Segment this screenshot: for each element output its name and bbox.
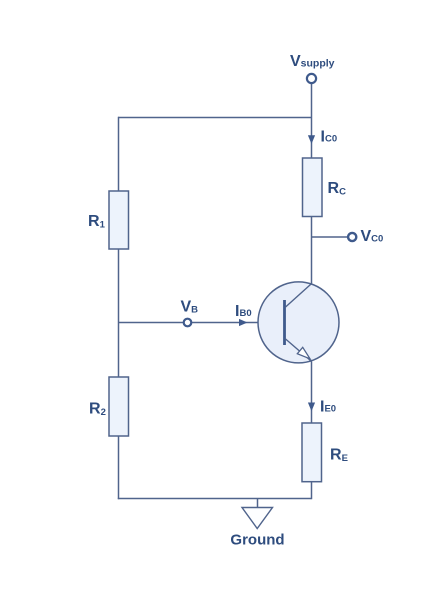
ground symbol xyxy=(242,508,273,529)
transistor Q1 body xyxy=(258,282,339,363)
svg-text:IE0: IE0 xyxy=(320,399,336,416)
arrow IE0 xyxy=(308,403,315,412)
wire: emitter drop xyxy=(311,361,313,423)
svg-text:RE: RE xyxy=(330,446,348,464)
svg-text:IC0: IC0 xyxy=(321,129,338,146)
resistor R2 xyxy=(109,377,129,436)
node VB xyxy=(184,319,192,327)
wire: RC to transistor xyxy=(311,217,313,284)
terminal VC0 xyxy=(348,233,356,241)
terminal Vsupply xyxy=(307,74,316,83)
arrow IB0 xyxy=(239,319,248,326)
wire: base xyxy=(118,322,283,324)
transistor Q1 collector lead xyxy=(285,284,312,308)
svg-text:IB0: IB0 xyxy=(235,303,252,320)
resistor RE xyxy=(302,423,322,482)
wire: bottom horizontal xyxy=(118,498,312,500)
resistor RC xyxy=(303,158,323,217)
svg-text:Vsupply: Vsupply xyxy=(290,53,335,70)
transistor Q1 emitter lead xyxy=(285,339,312,362)
svg-text:VC0: VC0 xyxy=(361,228,384,245)
svg-text:VB: VB xyxy=(181,298,199,315)
svg-text:Ground: Ground xyxy=(230,532,284,549)
wire: left rail upper xyxy=(118,117,120,191)
wire: top horizontal xyxy=(118,117,312,119)
wire: supply drop xyxy=(311,83,313,158)
arrow IC0 xyxy=(308,135,315,144)
wire: RE to bottom xyxy=(311,482,313,500)
svg-text:RC: RC xyxy=(328,180,347,198)
wire: left rail lower xyxy=(118,436,120,499)
ground stub xyxy=(257,499,259,508)
transistor Q1 emitter arrow xyxy=(297,347,310,359)
svg-text:R2: R2 xyxy=(89,400,106,418)
wire: VC0 branch xyxy=(312,236,349,238)
svg-text:R1: R1 xyxy=(88,213,106,231)
transistor Q1 base bar xyxy=(283,300,286,345)
wire: left rail middle xyxy=(118,249,120,377)
resistor R1 xyxy=(109,191,129,249)
